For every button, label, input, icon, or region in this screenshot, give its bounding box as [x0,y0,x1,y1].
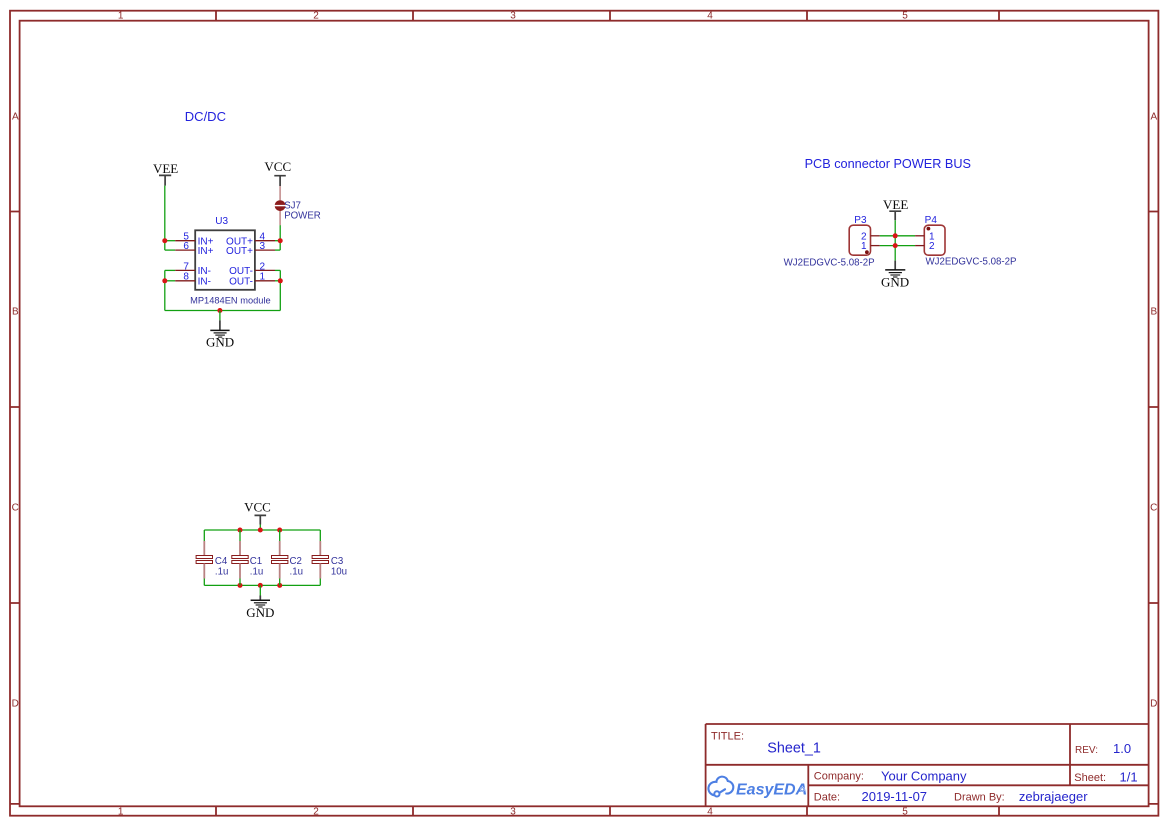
wire right upper vertical [279,225,281,250]
svg-text:IN+: IN+ [198,246,214,257]
power flag VCC [264,159,291,186]
solder jumper SJ7 [275,186,321,225]
wire to pin 1 [275,280,280,282]
wire GND stub U3 [219,311,221,321]
svg-text:U3: U3 [215,216,228,227]
svg-text:Company:: Company: [814,771,864,783]
wire to pin 2 [275,269,280,271]
junction pin5/VEE [162,238,167,243]
svg-text:D: D [1150,699,1157,710]
wire to pin 4 [275,240,280,242]
svg-text:1: 1 [118,807,124,818]
svg-text:VCC: VCC [264,159,291,174]
svg-text:3: 3 [510,807,516,818]
ground GND connector [881,261,909,290]
svg-text:zebrajaeger: zebrajaeger [1019,789,1088,804]
U3 pin 1 [229,272,275,288]
svg-text:IN-: IN- [198,266,211,277]
svg-text:OUT-: OUT- [229,277,253,288]
junction top C1 [238,528,243,533]
wire to pin 7 [165,269,175,271]
capacitor C1 [232,530,263,585]
svg-text:3: 3 [260,241,266,252]
title block [706,724,1149,806]
svg-text:C3: C3 [331,556,343,567]
svg-text:1/1: 1/1 [1120,770,1138,785]
svg-text:B: B [1150,307,1157,318]
svg-text:C: C [1150,503,1157,514]
svg-text:5: 5 [902,11,908,22]
svg-text:Your Company: Your Company [881,768,967,783]
svg-text:8: 8 [183,272,189,283]
U3 pin 7 [175,261,211,277]
svg-text:.1u: .1u [290,567,303,578]
svg-text:1.0: 1.0 [1113,741,1131,756]
title texts [711,730,1138,804]
svg-text:5: 5 [902,807,908,818]
U3 pin 6 [175,241,213,257]
svg-text:.1u: .1u [215,567,228,578]
junction pin1 [278,278,283,283]
svg-text:B: B [12,307,19,318]
junction top C2 [277,528,282,533]
svg-text:GND: GND [246,605,274,620]
EasyEDA logo [708,777,807,799]
wire bus vertical [894,236,896,261]
svg-text:A: A [1150,112,1157,123]
U3 pin 5 [175,232,213,248]
wire VCC stub [259,525,261,531]
svg-text:C: C [12,503,19,514]
wire left lower vertical [164,270,166,310]
svg-text:REV:: REV: [1075,745,1098,756]
capacitor C3 [312,530,347,585]
svg-text:.1u: .1u [250,567,263,578]
svg-text:2: 2 [929,241,935,252]
svg-text:1: 1 [118,11,124,22]
junction bus row1 [893,233,898,238]
op-amp U3 MP1484EN module [195,216,255,290]
svg-text:Date:: Date: [814,792,840,804]
svg-text:1: 1 [260,272,266,283]
wire bottom rail capacitors [204,584,320,586]
svg-text:C1: C1 [250,556,262,567]
U3 pin 8 [175,272,211,288]
svg-text:A: A [12,112,19,123]
svg-text:2: 2 [313,807,319,818]
svg-text:10u: 10u [331,567,347,578]
svg-text:Sheet:: Sheet: [1074,772,1106,784]
svg-text:VCC: VCC [244,500,271,515]
U3 pin 4 [226,232,275,248]
svg-text:IN-: IN- [198,277,211,288]
svg-text:EasyEDA: EasyEDA [736,781,807,798]
svg-text:4: 4 [707,807,713,818]
U3 pin 2 [229,261,275,277]
junction top VCC [258,528,263,533]
wire right lower vertical [279,270,281,310]
svg-text:2019-11-07: 2019-11-07 [862,789,928,804]
svg-text:POWER: POWER [284,210,321,221]
junction GND rail [217,308,222,313]
connector P3 [784,215,880,268]
svg-text:2: 2 [260,261,266,272]
svg-text:OUT+: OUT+ [226,246,253,257]
capacitor C4 [196,530,228,585]
wire VEE to bus [894,220,896,236]
svg-text:7: 7 [183,261,189,272]
wire to pin 5 [165,240,175,242]
wire VEE vertical [164,186,166,251]
junction bottom C2 [277,583,282,588]
junction bottom C1 [238,583,243,588]
junction pin4 [278,238,283,243]
power flag VEE (connector) [883,197,908,220]
ground GND capacitor bank [246,596,274,621]
ground GND under U3 [206,320,234,349]
wire GND stub capacitors [259,585,261,595]
wire bottom rail U3 [165,310,280,312]
svg-text:VEE: VEE [153,161,178,176]
wire to pin 6 [165,249,175,251]
power flag VEE [153,161,178,186]
wire to pin 3 [275,249,280,251]
svg-text:GND: GND [881,275,909,290]
svg-text:C2: C2 [290,556,302,567]
svg-text:3: 3 [510,11,516,22]
svg-text:PCB connector POWER BUS: PCB connector POWER BUS [805,157,971,171]
junction bottom GND [258,583,263,588]
capacitor C2 [272,530,303,585]
junction pin8 [162,278,167,283]
power flag VCC (capacitor bank) [244,500,271,525]
svg-text:C4: C4 [215,556,228,567]
svg-text:TITLE:: TITLE: [711,730,744,742]
svg-text:4: 4 [707,11,713,22]
connector P4 [915,215,1016,267]
svg-text:D: D [12,699,19,710]
svg-text:WJ2EDGVC-5.08-2P: WJ2EDGVC-5.08-2P [926,256,1017,267]
wire row2 [880,245,915,247]
U3 pin 3 [226,241,275,257]
svg-text:GND: GND [206,334,234,349]
wire row1 [880,235,915,237]
svg-text:DC/DC: DC/DC [185,109,226,124]
svg-text:2: 2 [313,11,319,22]
svg-text:WJ2EDGVC-5.08-2P: WJ2EDGVC-5.08-2P [784,257,875,268]
wire to pin 8 [165,280,175,282]
wire top rail capacitors [204,529,320,531]
svg-text:Drawn By:: Drawn By: [954,792,1005,804]
svg-text:6: 6 [183,241,189,252]
svg-text:MP1484EN module: MP1484EN module [190,295,271,305]
svg-text:OUT-: OUT- [229,266,253,277]
junction bus row2 [893,243,898,248]
svg-text:VEE: VEE [883,197,908,212]
svg-text:Sheet_1: Sheet_1 [767,740,821,756]
